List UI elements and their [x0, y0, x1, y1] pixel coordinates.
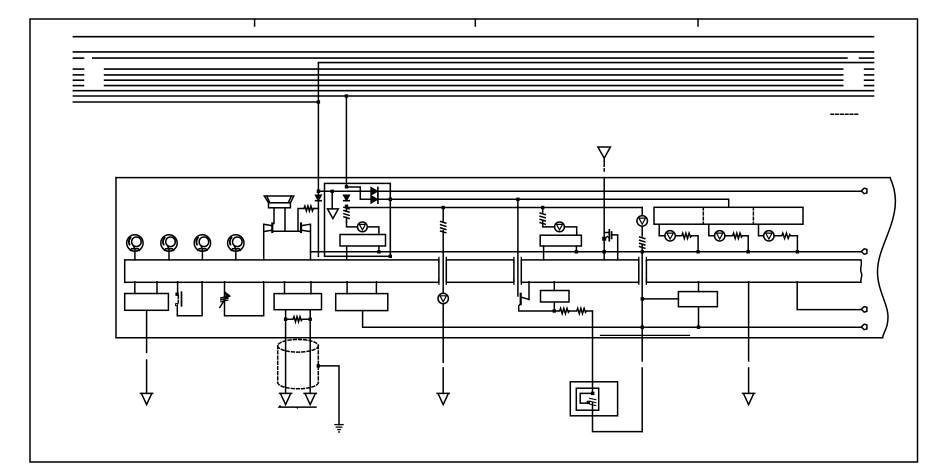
- diode DB: [371, 196, 378, 204]
- bus line 6: [73, 79, 873, 81]
- box B1: [125, 294, 169, 311]
- wire 543 chain drop: [542, 208, 544, 213]
- node junction 642/327: [641, 326, 644, 329]
- bar break ticks: [439, 257, 647, 284]
- wire jog to diode DB: [347, 187, 361, 199]
- lamp L8 chain: [759, 224, 798, 252]
- bus line 1: [73, 36, 873, 38]
- connector arrow down (285): [280, 393, 292, 404]
- speaker (horn): [264, 196, 294, 231]
- node junction coil top: [591, 392, 594, 395]
- resistor R9 (slant): [590, 398, 596, 405]
- bus line 5: [73, 74, 873, 76]
- diode D1: [316, 191, 322, 256]
- wire net 199: [360, 199, 728, 207]
- bus line 2: [73, 51, 873, 53]
- wire box stub to rail: [378, 246, 380, 252]
- trimmer capacitor C1: [220, 282, 264, 316]
- bus line 8: [73, 90, 873, 92]
- bus line 3: [73, 57, 873, 59]
- node junction 642/rail: [641, 250, 644, 253]
- node junction tri stem: [331, 190, 334, 193]
- lamp L4: [555, 222, 565, 232]
- ground symbol: [335, 425, 343, 433]
- switch S1: [175, 282, 202, 316]
- box B4: [541, 291, 570, 303]
- transistor Q3: [519, 282, 555, 311]
- connector bar segment 2: [446, 260, 514, 282]
- gauge M3: [194, 235, 210, 260]
- gauge M1: [127, 235, 143, 260]
- node junction 443/207: [442, 206, 445, 209]
- node junctions 319: [284, 318, 287, 321]
- lamp L6 chain: [659, 224, 698, 252]
- relay middle box: [576, 388, 598, 410]
- wire B4 top pin: [553, 282, 555, 291]
- wire shield to ground: [318, 366, 339, 425]
- wire lamp to resistor: [641, 226, 643, 236]
- lamp L3: [358, 222, 368, 232]
- transistor Q2: [301, 224, 311, 260]
- box B4b: [540, 235, 581, 246]
- node junction on bus line 10: [317, 100, 320, 103]
- node junction 698/327: [697, 326, 700, 329]
- resistor R5: [569, 308, 592, 313]
- wire to diode D1: [313, 208, 318, 210]
- bus line 11 (starts mid): [318, 62, 873, 64]
- wire 642 lamp branch: [641, 208, 643, 216]
- big box B6: [654, 207, 803, 224]
- mosfet Q4: [604, 230, 618, 260]
- wire connector drop 604: [603, 178, 605, 260]
- terminal T2: [861, 249, 867, 255]
- lamp L5: [637, 216, 648, 227]
- node junction coil bottom: [587, 401, 590, 404]
- wire net 207: [347, 207, 643, 209]
- wire B5 bottom pin: [698, 307, 700, 328]
- terminal T3: [861, 307, 867, 313]
- node junction 390/256: [389, 255, 392, 258]
- diode D2: [344, 195, 350, 200]
- wire B1 to arrow: [146, 310, 148, 393]
- node junction 554/311: [553, 309, 556, 312]
- node junction D1 top: [317, 190, 320, 193]
- wire 443 drop: [442, 208, 444, 221]
- connector bar segment 4: [646, 260, 861, 282]
- lamp L1: [438, 293, 448, 303]
- wire 518 drop: [517, 199, 519, 296]
- wire pin 797 to terminal: [797, 282, 861, 310]
- connector arrow down (748): [743, 393, 755, 404]
- node junction D2 top: [345, 185, 348, 188]
- node junction 748/rail: [747, 250, 750, 253]
- wire B2 pins: [285, 282, 312, 294]
- wire 443 to arrow: [442, 304, 444, 394]
- wire cylinder wires: [286, 319, 311, 393]
- wire lamp L4 to box: [564, 227, 576, 235]
- resistor R3 (vertical): [441, 221, 446, 233]
- terminal T4: [861, 324, 867, 330]
- wire B5 top pin: [698, 282, 700, 292]
- connector arrow (top, open triangle): [598, 147, 611, 171]
- ground triangle (open): [328, 191, 339, 218]
- bus line 7: [73, 85, 873, 87]
- rail wire 251.8: [311, 251, 862, 253]
- dashed divider 2: [752, 207, 754, 224]
- bus line 10: [73, 101, 318, 103]
- resistor R6 (vertical): [540, 213, 545, 224]
- dashed note line: [831, 113, 858, 115]
- wire relay loop: [593, 403, 643, 432]
- wire B4b pin left: [543, 246, 545, 260]
- dashed divider 1: [702, 207, 704, 224]
- wire bus drop 2: [345, 96, 347, 187]
- diode sub-box: [325, 183, 391, 256]
- wire bus drop 1: [317, 63, 319, 192]
- bus line 4: [73, 68, 873, 70]
- connector arrow down (146): [141, 393, 153, 404]
- wire lamp to box: [367, 227, 379, 235]
- box B2: [274, 294, 321, 310]
- connector bar segment 3: [521, 260, 639, 282]
- wire to lamp: [347, 221, 358, 227]
- wire B5 left feed: [642, 298, 678, 300]
- wire 443 drop cont: [442, 231, 444, 294]
- lamp L7 chain: [709, 224, 748, 252]
- wire B3 drop to net327: [363, 311, 862, 328]
- shield cylinder (dashed): [278, 340, 319, 389]
- connector arrow down (310): [304, 393, 316, 404]
- node junction 518/199: [516, 198, 519, 201]
- resistor R8: [286, 317, 311, 322]
- terminal T1: [861, 188, 867, 194]
- resistor R7 (vertical): [640, 237, 645, 248]
- node junction 390/199: [389, 198, 392, 201]
- relay K1 outer box: [570, 382, 617, 416]
- diode DA: [371, 187, 378, 195]
- wire pin 748 to arrow: [748, 282, 750, 394]
- box B3: [336, 294, 388, 311]
- relay coil box: [580, 393, 593, 403]
- bus line 9: [73, 95, 873, 97]
- wire box stub to bar: [346, 246, 348, 260]
- resistor R1: [304, 206, 315, 211]
- node junction 543/207: [541, 206, 544, 209]
- gauge M4: [228, 235, 244, 260]
- wire base link: [272, 230, 301, 232]
- wire B1 pins: [135, 282, 157, 294]
- wire sub-box right drop: [389, 183, 391, 256]
- wire net 191 to terminal: [318, 190, 861, 192]
- node junction 604/rail: [603, 250, 606, 253]
- node junction D2 bottom: [345, 205, 348, 208]
- node junction 642/299: [641, 297, 644, 300]
- transistor Q1: [264, 224, 273, 260]
- wire to lamp L4: [543, 221, 555, 227]
- wire B4 bottom pin: [553, 302, 555, 311]
- group underline: [279, 406, 316, 407]
- connector arrow down (443): [437, 393, 449, 404]
- wire to relay: [592, 311, 594, 393]
- node junction mosfet source: [602, 237, 606, 241]
- resistor R2 (vertical): [344, 206, 349, 222]
- node junction shield: [317, 364, 320, 367]
- connector bar segment 1: [125, 260, 439, 282]
- node junction 698/rail: [696, 250, 699, 253]
- node junction on bus line 9: [345, 94, 348, 97]
- wire riser to resistor: [298, 209, 304, 232]
- wire 642 down through bar: [641, 245, 643, 432]
- IC box U1: [340, 235, 386, 247]
- gauge M2: [161, 235, 177, 260]
- node junction 576/rail: [575, 250, 578, 253]
- wire B4b pin right: [575, 246, 577, 252]
- wire B3 pins: [347, 282, 376, 294]
- node junction rail: [377, 250, 380, 253]
- ECU block outline: [116, 178, 895, 338]
- node junction 797/rail: [796, 250, 799, 253]
- wire B2 bottom stubs: [286, 310, 311, 320]
- resistor R4: [556, 308, 569, 313]
- wire stray segment: [601, 334, 690, 336]
- box B5: [678, 292, 717, 307]
